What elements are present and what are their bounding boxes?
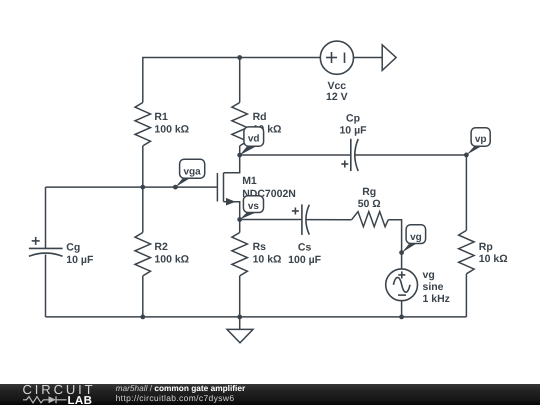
capacitor Cs — [288, 204, 321, 266]
svg-text:vd: vd — [248, 134, 260, 145]
wire vd rail — [240, 154, 351, 156]
svg-text:100 kΩ: 100 kΩ — [154, 253, 189, 265]
svg-text:Cp: Cp — [346, 113, 360, 125]
wire Rs bottom lead — [239, 276, 241, 317]
transistor M1 — [217, 155, 296, 219]
junction Rs / ground / bottom rail — [237, 315, 242, 320]
wire Rd bottom lead — [239, 146, 241, 155]
svg-text:1 kHz: 1 kHz — [423, 293, 450, 305]
wire R1 bottom lead — [142, 146, 144, 187]
voltage source Vcc — [320, 41, 353, 103]
power flag VCC — [382, 45, 396, 71]
junction node vg — [399, 250, 404, 255]
wire Rg to vg corner — [388, 220, 401, 269]
ground — [227, 317, 253, 343]
svg-text:Rg: Rg — [362, 186, 376, 198]
svg-text:vg: vg — [410, 232, 422, 243]
wire vs rail — [240, 219, 302, 221]
junction R2 / bottom rail — [140, 315, 145, 320]
junction vg source / bottom rail — [399, 315, 404, 320]
resistor Rd — [232, 103, 282, 146]
svg-text:http://circuitlab.com/c7dysw6: http://circuitlab.com/c7dysw6 — [116, 393, 235, 403]
wire gate rail — [46, 186, 218, 188]
svg-text:Rd: Rd — [253, 111, 267, 123]
svg-text:Cg: Cg — [66, 242, 80, 254]
junction top rail / Rd — [237, 55, 242, 60]
wire R2 bottom lead — [142, 276, 144, 317]
resistor Rp — [459, 230, 508, 273]
wire top rail — [143, 58, 320, 103]
footer url — [116, 393, 235, 403]
wire Vcc to flag — [354, 57, 383, 59]
node vga — [175, 159, 204, 187]
svg-text:R1: R1 — [154, 111, 168, 123]
wire Cp to vp — [355, 154, 466, 156]
svg-text:100 kΩ: 100 kΩ — [154, 123, 189, 135]
wire Rp bottom lead — [465, 274, 467, 317]
node vg — [402, 225, 426, 253]
logo squiggle — [23, 396, 67, 403]
junction node vga — [173, 185, 178, 190]
wire vg source bottom — [401, 301, 403, 317]
wire Cs to Rg — [306, 219, 352, 221]
svg-text:LAB: LAB — [68, 395, 93, 405]
svg-text:Rp: Rp — [479, 241, 493, 253]
junction node vp — [464, 153, 469, 158]
svg-text:10 µF: 10 µF — [339, 125, 367, 137]
wire R2 top lead — [142, 187, 144, 232]
wire Rs top lead — [239, 220, 241, 233]
node vs — [240, 196, 264, 220]
svg-text:sine: sine — [423, 281, 444, 293]
svg-text:Cs: Cs — [298, 242, 312, 254]
svg-text:vp: vp — [475, 134, 487, 145]
resistor Rg — [352, 186, 389, 227]
svg-text:vga: vga — [183, 167, 201, 178]
svg-text:vg: vg — [423, 269, 435, 281]
resistor Rs — [232, 233, 282, 276]
resistor R1 — [135, 103, 189, 146]
wire Rd top lead — [239, 58, 241, 103]
svg-text:Rs: Rs — [253, 241, 267, 253]
wire left column bottom — [45, 255, 47, 317]
node vp — [466, 128, 490, 155]
resistor R2 — [135, 233, 189, 276]
svg-text:10 µF: 10 µF — [66, 254, 94, 266]
svg-text:50 Ω: 50 Ω — [358, 198, 381, 210]
capacitor Cp — [339, 113, 367, 172]
source vg sine — [386, 269, 450, 305]
wire vp column — [465, 155, 467, 230]
wire bottom rail — [46, 316, 467, 318]
svg-text:M1: M1 — [242, 175, 257, 187]
svg-text:R2: R2 — [154, 241, 168, 253]
footer bar — [0, 384, 540, 405]
capacitor Cg — [29, 237, 94, 266]
logo LAB — [68, 395, 93, 405]
junction node vd — [237, 153, 242, 158]
logo CIRCUIT — [23, 382, 96, 397]
junction R1 / R2 / gate rail — [140, 185, 145, 190]
junction node vs — [237, 217, 242, 222]
svg-text:10 kΩ: 10 kΩ — [253, 253, 282, 265]
svg-text:12 V: 12 V — [326, 91, 348, 103]
footer title — [116, 383, 246, 393]
svg-text:mar5hall / common gate amplifi: mar5hall / common gate amplifier — [116, 383, 246, 393]
node vd — [240, 127, 264, 155]
svg-text:10 kΩ: 10 kΩ — [479, 253, 508, 265]
svg-text:vs: vs — [248, 201, 260, 212]
svg-text:100 µF: 100 µF — [288, 254, 321, 266]
wire left column top — [45, 187, 47, 248]
